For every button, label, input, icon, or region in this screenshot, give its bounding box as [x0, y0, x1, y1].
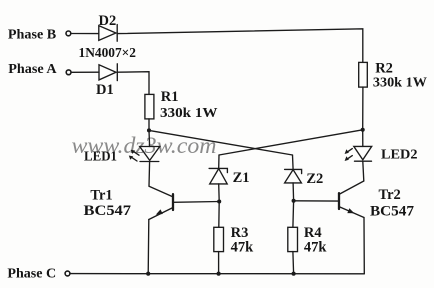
svg-text:LED1: LED1: [84, 150, 117, 165]
svg-text:Phase B: Phase B: [8, 28, 56, 43]
transistor Tr1 BC547: [84, 186, 220, 219]
junction node R4 on rail: [292, 272, 296, 276]
wire R2 bottom to junction: [362, 87, 364, 130]
terminal Phase B: [8, 28, 71, 43]
svg-text:330k 1W: 330k 1W: [373, 76, 427, 91]
svg-text:BC547: BC547: [84, 203, 132, 219]
resistor R2: [359, 60, 427, 90]
svg-text:LED2: LED2: [381, 148, 418, 163]
diode D1 1N4007: [96, 64, 117, 98]
transistor Tr2 BC547: [294, 181, 414, 219]
svg-text:BC547: BC547: [370, 203, 414, 219]
wire D1 cathode to corner down to R1: [117, 72, 149, 95]
wire Tr1 emitter down to bottom rail: [147, 220, 150, 274]
svg-text:R1: R1: [161, 89, 179, 105]
svg-text:Tr1: Tr1: [90, 188, 112, 204]
svg-text:Phase A: Phase A: [8, 62, 57, 77]
junction node Tr1 emitter on rail: [146, 272, 150, 276]
zener Z1: [209, 155, 249, 202]
wire bottom rail Phase C: [70, 273, 364, 275]
diode D2 1N4007: [99, 13, 118, 41]
resistor R1: [145, 89, 218, 121]
svg-text:R4: R4: [304, 225, 322, 241]
junction node Z1 / Tr1 base / R3: [217, 199, 221, 203]
terminal Phase A: [8, 62, 71, 77]
svg-text:47k: 47k: [231, 240, 255, 256]
LED LED2: [345, 130, 418, 163]
junction node Z2 / Tr2 base / R4: [292, 199, 296, 203]
svg-text:R2: R2: [375, 60, 393, 76]
svg-text:R3: R3: [231, 225, 249, 241]
wire R1 bottom to junction: [148, 119, 150, 130]
junction node below R1: [147, 128, 151, 132]
wire diagonal junction below R2 to Z1 top: [219, 130, 363, 155]
svg-text:Phase C: Phase C: [7, 267, 56, 282]
LED LED1: [84, 130, 160, 164]
junction node below R2: [361, 128, 365, 132]
svg-text:D2: D2: [99, 13, 117, 29]
wire LED1 cathode to Tr1 collector: [148, 162, 151, 187]
svg-text:47k: 47k: [304, 240, 328, 256]
svg-text:Z2: Z2: [306, 171, 323, 187]
wire LED2 cathode to Tr2 collector: [363, 161, 364, 181]
wire D2 cathode to top-right corner down to R2: [117, 29, 363, 63]
svg-text:330k 1W: 330k 1W: [160, 106, 218, 121]
terminal Phase C: [7, 267, 70, 282]
svg-text:Tr2: Tr2: [379, 187, 401, 203]
wire diagonal junction below R1 to Z2 top: [149, 130, 293, 155]
wire Tr2 emitter down right side to bottom rail: [363, 218, 365, 274]
zener Z2: [285, 155, 324, 201]
wire Phase B terminal to D2 anode: [71, 33, 99, 35]
junction node R3 on rail: [217, 272, 221, 276]
svg-text:D1: D1: [96, 82, 114, 98]
resistor R4: [288, 201, 328, 274]
svg-text:Z1: Z1: [233, 170, 250, 186]
svg-text:1N4007×2: 1N4007×2: [79, 46, 137, 61]
resistor R3: [214, 202, 254, 274]
wire Phase A terminal to D1 anode: [71, 71, 99, 73]
